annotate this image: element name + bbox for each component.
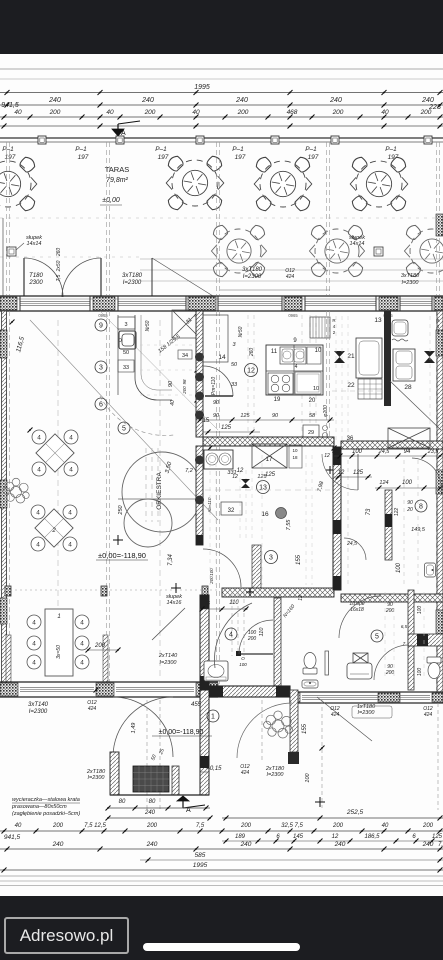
svg-text:φ200: φ200 [323, 405, 329, 417]
svg-text:145: 145 [293, 834, 304, 840]
svg-text:50: 50 [123, 350, 129, 356]
svg-text:4: 4 [80, 660, 84, 667]
svg-text:155: 155 [296, 554, 302, 565]
svg-text:100: 100 [305, 772, 311, 782]
svg-text:4: 4 [37, 435, 41, 442]
svg-text:16x18: 16x18 [350, 607, 364, 613]
svg-text:P–1: P–1 [385, 146, 397, 153]
svg-text:14x16: 14x16 [167, 600, 183, 606]
svg-text:100: 100 [352, 449, 363, 455]
svg-text:240: 240 [422, 841, 434, 848]
svg-text:4: 4 [32, 620, 36, 627]
svg-text:2: 2 [51, 528, 56, 534]
svg-text:22: 22 [347, 382, 355, 389]
svg-text:13: 13 [259, 485, 267, 492]
svg-text:I=2300: I=2300 [88, 775, 106, 781]
svg-text:I=2300: I=2300 [267, 772, 285, 778]
svg-text:189: 189 [235, 834, 246, 840]
svg-text:50: 50 [231, 362, 238, 368]
svg-text:76: 76 [204, 601, 211, 607]
svg-text:10: 10 [315, 348, 322, 354]
svg-text:I=2300: I=2300 [402, 280, 420, 286]
svg-text:2300: 2300 [28, 280, 43, 286]
svg-text:3xT180: 3xT180 [401, 273, 420, 279]
svg-text:110: 110 [259, 627, 265, 637]
svg-text:80: 80 [149, 799, 156, 805]
svg-text:186,5: 186,5 [364, 834, 380, 840]
svg-text:94: 94 [404, 449, 411, 455]
svg-text:1: 1 [211, 714, 215, 721]
svg-text:4: 4 [68, 510, 72, 517]
svg-text:3: 3 [269, 555, 273, 562]
svg-text:240: 240 [421, 97, 434, 104]
svg-text:424: 424 [286, 274, 295, 280]
svg-text:I=2300: I=2300 [29, 709, 48, 715]
svg-text:7,2: 7,2 [185, 468, 193, 474]
svg-text:585: 585 [195, 852, 206, 859]
svg-text:1995: 1995 [193, 862, 208, 869]
svg-text:200: 200 [420, 109, 432, 116]
svg-text:33: 33 [231, 382, 238, 388]
svg-text:6,5: 6,5 [401, 624, 408, 629]
svg-text:7,: 7, [438, 842, 443, 848]
svg-text:3x=50: 3x=50 [56, 645, 62, 659]
svg-text:32,5 7,5: 32,5 7,5 [281, 823, 303, 829]
svg-text:O: O [241, 656, 245, 661]
svg-text:33: 33 [123, 365, 129, 371]
svg-text:12: 12 [332, 834, 339, 840]
svg-text:±0,00: ±0,00 [102, 197, 120, 204]
svg-text:125: 125 [240, 413, 250, 419]
svg-text:200: 200 [146, 823, 158, 829]
svg-text:100: 100 [396, 562, 402, 573]
svg-text:29: 29 [308, 430, 314, 436]
svg-text:40: 40 [106, 109, 114, 116]
svg-text:prasowana—80x50cm: prasowana—80x50cm [11, 804, 67, 810]
svg-text:98: 98 [182, 379, 187, 385]
svg-text:100: 100 [402, 480, 413, 486]
svg-text:73: 73 [366, 508, 372, 515]
svg-text:6: 6 [99, 402, 103, 409]
svg-text:155: 155 [302, 723, 308, 734]
svg-text:7,55: 7,55 [286, 519, 292, 531]
svg-text:I=2300: I=2300 [160, 660, 178, 666]
svg-text:200: 200 [94, 643, 106, 649]
svg-text:90: 90 [213, 400, 220, 406]
svg-text:455: 455 [191, 702, 202, 708]
svg-text:3: 3 [124, 322, 127, 328]
svg-text:12: 12 [247, 368, 255, 375]
svg-text:197: 197 [235, 154, 246, 161]
svg-text:40: 40 [381, 109, 389, 116]
svg-text:40: 40 [382, 823, 389, 829]
svg-text:4: 4 [69, 435, 73, 442]
svg-text:4: 4 [229, 632, 233, 639]
svg-text:21: 21 [347, 353, 355, 360]
svg-text:Pm=110: Pm=110 [211, 377, 217, 396]
svg-text:90: 90 [168, 380, 174, 387]
svg-text:7,5 12,5: 7,5 12,5 [84, 823, 106, 829]
svg-text:40: 40 [15, 823, 22, 829]
svg-text:10: 10 [292, 448, 298, 453]
svg-text:424: 424 [331, 712, 340, 718]
svg-text:4: 4 [32, 660, 36, 667]
svg-text:80: 80 [119, 799, 126, 805]
svg-text:58: 58 [309, 413, 316, 419]
svg-text:10: 10 [313, 386, 319, 392]
svg-text:28: 28 [404, 384, 412, 391]
svg-text:32: 32 [228, 508, 235, 514]
svg-text:125: 125 [221, 425, 232, 431]
svg-text:(zagłębienie posadzki–5cm): (zagłębienie posadzki–5cm) [12, 811, 80, 817]
svg-text:12: 12 [232, 474, 238, 480]
svg-text:197: 197 [78, 154, 89, 161]
svg-text:13: 13 [374, 317, 382, 324]
svg-text:1,49: 1,49 [131, 723, 137, 734]
svg-text:I=2300: I=2300 [243, 274, 262, 280]
svg-text:200: 200 [144, 109, 156, 116]
svg-text:15: 15 [203, 418, 210, 424]
svg-text:24,5: 24,5 [346, 541, 357, 547]
svg-text:14: 14 [218, 354, 226, 361]
svg-text:16: 16 [261, 511, 269, 518]
svg-text:40: 40 [170, 400, 176, 406]
svg-text:34: 34 [182, 353, 188, 359]
svg-text:–0,15: –0,15 [205, 766, 222, 772]
svg-text:P–1: P–1 [305, 146, 317, 153]
svg-text:90: 90 [272, 413, 279, 419]
svg-text:240: 240 [144, 810, 156, 816]
svg-text:P–1: P–1 [232, 146, 244, 153]
svg-text:200: 200 [240, 823, 252, 829]
svg-text:Nr50: Nr50 [145, 320, 151, 331]
svg-text:T180: T180 [29, 273, 43, 279]
svg-text:197: 197 [308, 154, 319, 161]
svg-text:124: 124 [379, 480, 388, 486]
svg-text:90: 90 [213, 413, 220, 419]
svg-text:100: 100 [417, 606, 423, 615]
svg-text:17: 17 [266, 457, 273, 463]
svg-text:200: 200 [247, 636, 257, 642]
svg-text:I=2300: I=2300 [358, 710, 376, 716]
svg-text:14x14: 14x14 [27, 241, 42, 247]
svg-text:1995: 1995 [194, 84, 210, 91]
svg-text:3xT140: 3xT140 [28, 702, 49, 708]
svg-text:4: 4 [36, 510, 40, 517]
svg-text:240: 240 [329, 97, 342, 104]
svg-text:36: 36 [347, 436, 354, 442]
svg-text:2x50: 2x50 [56, 260, 62, 272]
svg-text:4: 4 [69, 467, 73, 474]
svg-text:±0,00=-118,90: ±0,00=-118,90 [98, 551, 146, 560]
svg-text:4: 4 [68, 542, 72, 549]
svg-text:2xT140: 2xT140 [158, 653, 178, 659]
svg-text:12: 12 [237, 468, 244, 474]
svg-text:200: 200 [332, 823, 344, 829]
svg-text:20: 20 [406, 507, 413, 513]
svg-text:200: 200 [237, 109, 249, 116]
svg-text:23,5: 23,5 [427, 449, 440, 455]
svg-text:7,5: 7,5 [196, 823, 205, 829]
svg-text:1: 1 [57, 614, 60, 620]
svg-text:941,5: 941,5 [1, 102, 19, 109]
svg-text:9: 9 [99, 323, 103, 330]
svg-text:3xT180: 3xT180 [242, 267, 263, 273]
svg-text:200: 200 [49, 109, 61, 116]
svg-text:424: 424 [424, 712, 433, 718]
svg-text:100: 100 [417, 668, 423, 677]
svg-text:18: 18 [292, 455, 298, 460]
svg-text:424: 424 [241, 770, 250, 776]
svg-text:4: 4 [80, 620, 84, 627]
svg-text:P–1: P–1 [75, 146, 87, 153]
svg-text:7,34: 7,34 [168, 554, 174, 566]
svg-text:12: 12 [298, 595, 304, 601]
svg-text:40: 40 [14, 109, 22, 116]
svg-text:240: 240 [146, 841, 158, 848]
svg-text:941,5: 941,5 [4, 834, 21, 841]
svg-text:200: 200 [52, 823, 64, 829]
svg-text:3: 3 [99, 365, 103, 372]
svg-text:240: 240 [141, 97, 154, 104]
svg-text:Nr50: Nr50 [238, 326, 244, 337]
svg-text:P–1: P–1 [2, 146, 14, 153]
svg-text:8: 8 [419, 504, 423, 511]
svg-text:7,5: 7,5 [56, 274, 62, 281]
svg-text:252,5: 252,5 [346, 809, 364, 816]
svg-text:14x14: 14x14 [350, 241, 365, 247]
svg-text:240: 240 [48, 97, 61, 104]
svg-text:40: 40 [192, 109, 200, 116]
svg-text:200: 200 [385, 608, 395, 614]
svg-text:na=110: na=110 [207, 497, 212, 512]
svg-text:4: 4 [32, 641, 36, 648]
svg-text:90: 90 [407, 500, 413, 506]
svg-text:4: 4 [80, 641, 84, 648]
svg-text:4: 4 [37, 467, 41, 474]
svg-text:149,5: 149,5 [411, 527, 426, 533]
svg-text:±0,00=-118,90: ±0,00=-118,90 [159, 729, 204, 736]
svg-text:4: 4 [295, 364, 298, 370]
svg-text:24,5: 24,5 [378, 449, 391, 455]
svg-text:3xT180: 3xT180 [122, 273, 143, 279]
svg-text:0965: 0965 [98, 313, 108, 318]
svg-text:5: 5 [375, 634, 379, 641]
svg-text:200: 200 [385, 670, 395, 676]
svg-text:11: 11 [271, 349, 278, 355]
svg-text:20: 20 [309, 398, 316, 404]
svg-text:240: 240 [240, 841, 252, 848]
svg-text:240: 240 [235, 97, 248, 104]
svg-text:wycieraczka—stalowa krata: wycieraczka—stalowa krata [12, 797, 80, 803]
svg-text:12: 12 [324, 453, 330, 459]
svg-text:122: 122 [394, 508, 400, 517]
svg-text:0965: 0965 [288, 313, 298, 318]
svg-text:I=2300: I=2300 [123, 280, 142, 286]
svg-text:240: 240 [52, 841, 64, 848]
svg-text:125: 125 [265, 472, 276, 478]
svg-text:100: 100 [239, 662, 247, 667]
svg-text:19: 19 [274, 397, 281, 403]
svg-text:5: 5 [122, 426, 126, 433]
svg-text:200: 200 [422, 823, 434, 829]
svg-text:P–1: P–1 [155, 146, 167, 153]
svg-text:197: 197 [158, 154, 169, 161]
svg-text:ORKIESTRA: ORKIESTRA [156, 472, 163, 510]
svg-text:200: 200 [332, 109, 344, 116]
svg-text:4: 4 [36, 542, 40, 549]
svg-text:250: 250 [118, 504, 124, 515]
svg-text:424: 424 [88, 706, 97, 712]
svg-text:260: 260 [56, 248, 62, 258]
svg-text:TARAS: TARAS [105, 165, 129, 174]
svg-text:200: 200 [182, 386, 187, 395]
svg-text:240: 240 [334, 841, 346, 848]
svg-text:12: 12 [338, 470, 345, 476]
svg-text:2,5: 2,5 [331, 449, 341, 455]
